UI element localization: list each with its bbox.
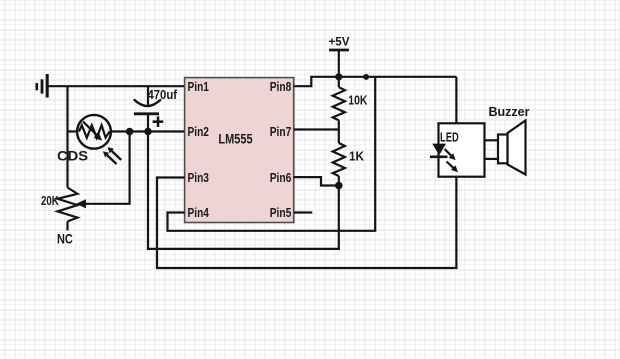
svg-text:Buzzer: Buzzer xyxy=(489,105,530,119)
pot bottom lead xyxy=(66,221,68,230)
svg-text:1K: 1K xyxy=(349,149,364,163)
wire Pin8 to +5V rail xyxy=(294,77,457,86)
svg-text:Pin6: Pin6 xyxy=(270,170,292,185)
svg-text:+5V: +5V xyxy=(329,34,350,48)
junction dot rail xyxy=(363,74,369,80)
svg-text:Pin3: Pin3 xyxy=(188,170,209,185)
resistor 10K xyxy=(333,77,368,121)
photocell arrow head xyxy=(94,131,102,140)
wire left vertical to pot xyxy=(66,86,68,187)
pot wiper arrow head xyxy=(76,199,86,208)
wire Pin7 xyxy=(294,128,339,130)
junction dot +5V xyxy=(335,73,342,80)
wire 1K bottom xyxy=(338,176,340,186)
svg-text:10K: 10K xyxy=(348,94,367,108)
wire Pin6 step xyxy=(294,177,339,185)
junction dot Pin6/1K xyxy=(335,182,343,190)
op-amp timer IC LM555 xyxy=(185,78,294,223)
potentiometer 20K xyxy=(58,188,78,222)
wire junction down to pot wiper xyxy=(80,132,130,204)
svg-text:CDS: CDS xyxy=(57,148,88,164)
svg-text:NC: NC xyxy=(57,231,73,247)
svg-text:Pin8: Pin8 xyxy=(270,79,292,94)
wire Pin5 stub xyxy=(294,211,313,213)
svg-text:LM555: LM555 xyxy=(218,131,253,146)
svg-text:470uf: 470uf xyxy=(148,87,178,102)
LED emission arrow 1 xyxy=(445,149,456,160)
LED diode symbol xyxy=(430,144,448,157)
ground xyxy=(37,74,47,98)
wire +5V rail down to LED box xyxy=(455,77,457,124)
capacitor 470uf xyxy=(134,86,164,131)
wire 10K to 1K xyxy=(338,120,340,143)
LED box xyxy=(439,123,485,176)
svg-text:LED: LED xyxy=(440,129,459,144)
wire ground to Pin1 xyxy=(47,85,184,87)
LED emission arrow 2 xyxy=(447,162,459,173)
svg-text:Pin2: Pin2 xyxy=(188,124,209,139)
svg-text:Pin5: Pin5 xyxy=(270,205,292,220)
svg-text:Pin4: Pin4 xyxy=(188,205,210,220)
wire CDS to Pin2 xyxy=(111,130,185,132)
light arrow 2 xyxy=(108,147,122,160)
photocell CDS xyxy=(77,115,111,149)
wire Pin2 to Pin6 (bottom run) xyxy=(148,132,339,249)
svg-text:Pin1: Pin1 xyxy=(188,79,209,94)
CDS left lead wire xyxy=(68,130,78,132)
junction dot Pin2/pot xyxy=(126,128,134,136)
light arrow 1 xyxy=(103,151,117,164)
svg-text:20K: 20K xyxy=(41,194,59,208)
resistor 1K xyxy=(333,143,364,176)
buzzer xyxy=(485,105,530,175)
svg-text:Pin7: Pin7 xyxy=(270,124,292,139)
+5V supply xyxy=(329,34,350,77)
wire Pin3 to LED (bottom run) xyxy=(157,177,456,268)
wire Pin4 to +5V rail xyxy=(168,77,376,231)
junction dot Pin2/cap xyxy=(144,128,152,136)
